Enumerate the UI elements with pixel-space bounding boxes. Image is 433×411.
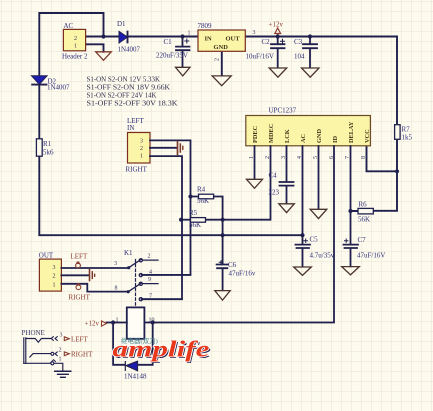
wire top-left rail bbox=[39, 13, 302, 235]
svg-text:RIGHT: RIGHT bbox=[71, 351, 93, 359]
svg-text:1: 1 bbox=[53, 282, 56, 288]
diode D3 1N4148 flyback bbox=[113, 323, 153, 365]
svg-text:C5: C5 bbox=[310, 236, 319, 244]
op-amp U1 UPC1237 bbox=[246, 116, 371, 146]
connector OUT bbox=[39, 259, 61, 291]
svg-text:PHONE: PHONE bbox=[22, 329, 45, 337]
ground under pin5 bbox=[310, 209, 327, 218]
power port +12v at coil bbox=[102, 321, 107, 326]
svg-text:Header 2: Header 2 bbox=[62, 53, 88, 61]
U1 pin names bbox=[252, 121, 371, 143]
ground under C6 bbox=[215, 291, 230, 301]
svg-text:OUT: OUT bbox=[226, 36, 241, 43]
svg-text:3: 3 bbox=[253, 30, 256, 36]
wire OUT pin1 to relay common 8 bbox=[61, 284, 128, 292]
wire regulator output rail bbox=[245, 37, 397, 212]
wire IN pin3 LEFT line bbox=[142, 140, 191, 275]
svg-text:GND: GND bbox=[214, 44, 229, 51]
svg-text:10uF/16V: 10uF/16V bbox=[246, 53, 274, 61]
wire U1 pin4 to sense rail bbox=[302, 146, 304, 235]
svg-text:R7: R7 bbox=[402, 126, 411, 134]
svg-text:GND: GND bbox=[316, 129, 323, 143]
resistor R1 bbox=[36, 139, 42, 156]
svg-text:56K: 56K bbox=[189, 221, 201, 229]
ground under C2 bbox=[269, 68, 287, 77]
wire AC pin1 to ground bbox=[86, 44, 104, 52]
svg-text:1N4148: 1N4148 bbox=[124, 373, 147, 381]
svg-text:1: 1 bbox=[188, 31, 191, 37]
capacitor C2 bbox=[271, 37, 285, 68]
connector IN bbox=[128, 133, 151, 164]
ground under C5 bbox=[294, 267, 312, 275]
svg-text:R6: R6 bbox=[359, 201, 368, 209]
svg-text:R1: R1 bbox=[43, 140, 52, 148]
svg-text:OUT: OUT bbox=[39, 252, 54, 260]
svg-text:AC: AC bbox=[300, 133, 307, 143]
diode D2 1N4007 bbox=[32, 76, 48, 85]
watermark amplife bbox=[113, 337, 212, 364]
svg-text:LEFT: LEFT bbox=[71, 253, 88, 261]
svg-text:2: 2 bbox=[74, 36, 77, 42]
svg-text:1: 1 bbox=[74, 44, 77, 50]
svg-text:1: 1 bbox=[59, 357, 62, 363]
svg-text:R4: R4 bbox=[197, 186, 206, 194]
capacitor C7 bbox=[344, 239, 359, 266]
svg-text:+12v: +12v bbox=[85, 320, 100, 328]
wire OUT pin2 to signal ground bbox=[61, 274, 88, 276]
svg-text:DELAY: DELAY bbox=[348, 121, 355, 143]
svg-text:LCK: LCK bbox=[284, 129, 291, 143]
svg-text:UPC1237: UPC1237 bbox=[269, 107, 297, 115]
svg-text:1N4007: 1N4007 bbox=[47, 84, 70, 92]
svg-text:C6: C6 bbox=[228, 261, 237, 269]
svg-text:ID: ID bbox=[332, 136, 339, 143]
svg-text:R5: R5 bbox=[189, 209, 198, 217]
wire AC to regulator bbox=[86, 36, 198, 38]
svg-text:2: 2 bbox=[140, 146, 143, 152]
svg-text:1: 1 bbox=[140, 154, 143, 160]
svg-text:C3: C3 bbox=[294, 38, 303, 46]
svg-text:IN: IN bbox=[205, 36, 213, 43]
power port +12v top bbox=[275, 28, 281, 37]
svg-text:C2: C2 bbox=[262, 38, 271, 46]
svg-text:IN: IN bbox=[127, 124, 134, 132]
svg-text:S1-OFF S2-OFF 30V 18.3K: S1-OFF S2-OFF 30V 18.3K bbox=[87, 100, 178, 108]
svg-text:1k5: 1k5 bbox=[402, 134, 413, 142]
svg-text:2: 2 bbox=[53, 274, 56, 280]
svg-text:+12v: +12v bbox=[269, 21, 284, 29]
wire 7809 gnd pin bbox=[221, 51, 223, 75]
svg-text:2: 2 bbox=[148, 254, 151, 260]
svg-text:S1-ON S2-ON 12V 5.33K: S1-ON S2-ON 12V 5.33K bbox=[87, 75, 161, 83]
capacitor C3 bbox=[303, 37, 317, 68]
net flag RIGHT at phone bbox=[64, 352, 69, 356]
svg-text:S1-ON S2-OFF 24V 14K: S1-ON S2-OFF 24V 14K bbox=[87, 92, 157, 100]
svg-text:2: 2 bbox=[59, 348, 62, 354]
ground under AC pin1 bbox=[96, 52, 112, 61]
capacitor C5 bbox=[296, 235, 311, 266]
svg-text:C4: C4 bbox=[269, 172, 278, 180]
capacitor C6 bbox=[217, 235, 228, 290]
wire U1 pin1 bbox=[254, 146, 256, 179]
earth ground at phone bbox=[55, 371, 71, 377]
svg-text:220uF/35V: 220uF/35V bbox=[156, 52, 188, 60]
wire U1 pin6 to relay coil bbox=[144, 146, 334, 323]
resistor R4 bbox=[191, 197, 223, 236]
svg-text:9: 9 bbox=[148, 277, 151, 283]
wire pin8 to R7 net bbox=[367, 146, 398, 171]
diode D1 1N4007 bbox=[119, 31, 128, 43]
svg-text:3: 3 bbox=[140, 139, 143, 145]
resistor R7 bbox=[395, 125, 401, 140]
net flag LEFT on out wire bbox=[76, 263, 81, 268]
svg-text:56K: 56K bbox=[197, 197, 209, 205]
ground under 7809 bbox=[212, 76, 231, 86]
net flag RIGHT on out wire bbox=[76, 285, 81, 290]
svg-text:C1: C1 bbox=[164, 38, 173, 46]
svg-text:amplife: amplife bbox=[113, 337, 210, 362]
svg-text:MDEC: MDEC bbox=[268, 123, 275, 143]
svg-text:104: 104 bbox=[294, 53, 305, 61]
wire IN pin1 RIGHT line bbox=[142, 156, 183, 299]
svg-text:1N4007: 1N4007 bbox=[118, 46, 141, 54]
svg-text:D1: D1 bbox=[117, 20, 126, 28]
regulator U 7809 bbox=[198, 30, 245, 51]
svg-text:4.7u/35v: 4.7u/35v bbox=[310, 252, 335, 260]
svg-text:5k6: 5k6 bbox=[43, 149, 54, 157]
K1 switch arm bottom bbox=[128, 282, 182, 301]
svg-text:8: 8 bbox=[115, 286, 118, 292]
svg-text:7809: 7809 bbox=[198, 22, 213, 30]
connector AC bbox=[63, 29, 85, 50]
svg-text:56K: 56K bbox=[358, 216, 370, 224]
signal ground bars at IN bbox=[178, 142, 183, 155]
ground under C7 bbox=[342, 267, 360, 275]
signal ground bars at OUT bbox=[90, 270, 95, 281]
wire U1 pin2 to R5 bbox=[206, 146, 271, 220]
svg-text:LEFT: LEFT bbox=[71, 336, 88, 344]
ground under pin1 bbox=[247, 179, 263, 188]
svg-text:RIGHT: RIGHT bbox=[69, 294, 91, 302]
svg-text:K1: K1 bbox=[124, 249, 133, 257]
capacitor C1 bbox=[176, 37, 190, 67]
svg-text:47uF/16V: 47uF/16V bbox=[357, 252, 385, 260]
svg-text:VCC: VCC bbox=[364, 129, 371, 143]
wire IN pin2 to signal ground bbox=[150, 147, 177, 149]
svg-text:47uF/16v: 47uF/16v bbox=[229, 270, 256, 278]
capacitor C4 on pin3 bbox=[280, 146, 294, 203]
svg-text:3: 3 bbox=[114, 261, 117, 267]
svg-text:8: 8 bbox=[361, 156, 367, 159]
resistor R5 bbox=[181, 219, 190, 221]
ground under C4 bbox=[279, 204, 295, 213]
svg-text:S1-OFF S2-ON 18V 9.66K: S1-OFF S2-ON 18V 9.66K bbox=[87, 83, 171, 91]
svg-text:2: 2 bbox=[215, 58, 221, 61]
wire U1 pin7 delay net bbox=[350, 146, 352, 244]
svg-text:3: 3 bbox=[53, 265, 56, 271]
K1 linkage dashed bbox=[135, 260, 137, 307]
ground under C1 bbox=[176, 67, 191, 76]
net flag LEFT at phone bbox=[64, 337, 69, 341]
svg-text:223: 223 bbox=[269, 189, 280, 197]
resistor R6 bbox=[358, 208, 373, 214]
svg-text:PDEC: PDEC bbox=[252, 125, 259, 143]
table S1 S2 settings bbox=[87, 75, 178, 107]
svg-text:RIGHT: RIGHT bbox=[126, 166, 148, 174]
wire OUT pin3 to relay common 3 bbox=[61, 267, 128, 269]
U1 pin numbers bbox=[249, 156, 367, 159]
K1 switch arm top bbox=[129, 259, 191, 277]
svg-text:C7: C7 bbox=[358, 236, 367, 244]
wire +12v to coil pin1 bbox=[107, 322, 127, 324]
svg-text:AC: AC bbox=[64, 22, 74, 30]
ground under C3 bbox=[302, 68, 320, 77]
relay K1 coil bbox=[127, 307, 145, 338]
svg-text:3: 3 bbox=[60, 333, 63, 339]
wire U1 pin5 to ground bbox=[318, 146, 320, 209]
